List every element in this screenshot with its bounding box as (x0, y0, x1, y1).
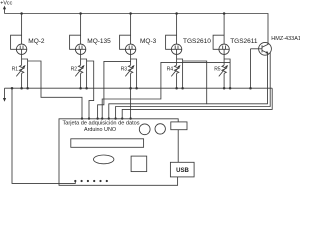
USB connector (170, 162, 194, 177)
svg-text:Tarjeta de adquisición de dato: Tarjeta de adquisición de datos (62, 121, 139, 127)
svg-text:MQ-3: MQ-3 (140, 38, 157, 45)
node: HMZ board entry (114, 117, 116, 119)
node: R4 ground junction (175, 87, 178, 90)
wire: TGS2611 bottom (223, 55, 225, 66)
wire: HMZ-433A1 base to ground rail (250, 49, 252, 88)
power +Vcc symbol (0, 1, 12, 14)
node: Vcc junction for MQ-3 (129, 12, 132, 15)
ground symbol (down arrow) (3, 88, 6, 102)
svg-text:R1: R1 (12, 67, 19, 73)
svg-text:R3: R3 (121, 67, 128, 73)
wire: Vcc to MQ-2 top (21, 14, 23, 45)
node: R3 ground junction (129, 87, 132, 90)
Arduino UNO board outline (59, 119, 178, 186)
wire: Vcc to MQ-3 top (130, 14, 132, 45)
node: HMZ base ground junction (249, 87, 252, 90)
wire: R3 to ground rail (130, 73, 132, 88)
svg-text:TGS2611: TGS2611 (230, 38, 258, 45)
wire: TGS2610 output to board A4 (109, 61, 207, 119)
wire: MQ-135 output to board A1 (87, 61, 94, 119)
node: R5 ground junction (223, 87, 226, 90)
board button (right circle) (155, 124, 165, 134)
wire: MQ-135 return leg (81, 59, 87, 88)
node: MQ-135 return ground junction (85, 87, 88, 90)
svg-text:MQ-2: MQ-2 (28, 38, 45, 45)
node: A3 board entry (101, 117, 103, 119)
heater loop of MQ-135 (70, 35, 81, 49)
analog input header (71, 139, 144, 148)
node: ground wrap board entry (121, 117, 123, 119)
svg-text:MQ-135: MQ-135 (87, 38, 111, 45)
wire: MQ-3 return leg (131, 59, 137, 88)
wire: TGS2610 return leg (177, 59, 183, 88)
node: MQ-2 return ground junction (26, 87, 29, 90)
heater loop of TGS2611 (213, 35, 224, 49)
node: Vcc junction for TGS2610 (175, 12, 178, 15)
node: Vcc junction for MQ-2 (20, 12, 23, 15)
node: R1 ground junction (20, 87, 23, 90)
heater loop of MQ-2 (11, 35, 22, 49)
heater loop of TGS2610 (166, 35, 177, 49)
resistor R1 (variable) (12, 65, 26, 76)
wire: ground wrap to board (122, 88, 272, 119)
resistor R5 (variable) (214, 65, 228, 76)
board power header pins (74, 180, 108, 182)
board power connector (top right) (171, 122, 187, 130)
node: TGS2610 return ground junction (181, 87, 184, 90)
svg-text:TGS2610: TGS2610 (183, 38, 211, 45)
wire: TGS2610 bottom (176, 55, 178, 66)
wire: Vcc to MQ-135 top (80, 14, 82, 45)
node: A4 board entry (108, 117, 110, 119)
wire: +Vcc rail (5, 14, 269, 45)
wire: Vcc to TGS2611 top (223, 14, 225, 45)
svg-text:R4: R4 (167, 67, 174, 73)
wire: TGS2611 return leg (224, 59, 230, 88)
wire: MQ-2 output to board A0 (28, 61, 82, 119)
gas sensor MQ-2 (16, 38, 45, 54)
svg-text:R5: R5 (214, 67, 221, 73)
svg-text:Arduino UNO: Arduino UNO (84, 127, 116, 133)
node: A2 board entry (96, 117, 98, 119)
svg-text:HMZ-433A1: HMZ-433A1 (271, 36, 300, 42)
wire: TGS2611 output to board A3 (102, 62, 230, 119)
node: A0 board entry (81, 117, 83, 119)
wire: MQ-3 bottom (130, 55, 132, 66)
board button (left circle) (139, 124, 150, 135)
svg-text:R2: R2 (71, 67, 78, 73)
microcontroller chip (131, 156, 147, 172)
gas sensor TGS2611 (219, 38, 258, 54)
heater loop of MQ-3 (120, 35, 131, 49)
node: Vcc junction for TGS2611 (223, 12, 226, 15)
resistor R4 (variable) (167, 65, 181, 76)
node: A1 board entry (88, 117, 90, 119)
wire: MQ-135 bottom (80, 55, 82, 66)
wire: ground to board power pin (12, 88, 75, 183)
wire: R5 to ground rail (223, 73, 225, 88)
node: Vcc junction for MQ-135 (79, 12, 82, 15)
humidity sensor HMZ-433A1 (251, 36, 301, 55)
wire: Vcc to TGS2610 top (176, 14, 178, 45)
gas sensor MQ-135 (75, 38, 111, 54)
node: MQ-3 return ground junction (135, 87, 138, 90)
node: R2 ground junction (79, 87, 82, 90)
wire: ground rail (5, 87, 273, 89)
crystal oscillator ellipse (94, 155, 114, 164)
svg-text:USB: USB (176, 168, 189, 174)
resistor R3 (variable) (121, 65, 135, 76)
wire: HMZ-433A1 pin to bus (207, 53, 268, 103)
wire: ground drop to board (130, 88, 132, 119)
wire: R1 to ground rail (21, 73, 23, 88)
gas sensor MQ-3 (125, 38, 156, 54)
svg-text:+Vcc: +Vcc (0, 1, 12, 7)
node: ground junction to board (11, 87, 14, 90)
gas sensor TGS2610 (171, 38, 211, 54)
resistor R2 (variable) (71, 65, 85, 76)
node: TGS2611 return ground junction (229, 87, 232, 90)
node: ground drop board entry (129, 117, 131, 119)
wire: HMZ-433A1 output to board (116, 53, 271, 120)
board title text (62, 121, 139, 134)
wire: MQ-2 return leg (22, 59, 28, 88)
wire: MQ-3 output to board A2 (98, 61, 131, 119)
wire: R4 to ground rail (176, 73, 178, 88)
wire: R2 to ground rail (80, 73, 82, 88)
wire: MQ-2 bottom (21, 55, 23, 66)
